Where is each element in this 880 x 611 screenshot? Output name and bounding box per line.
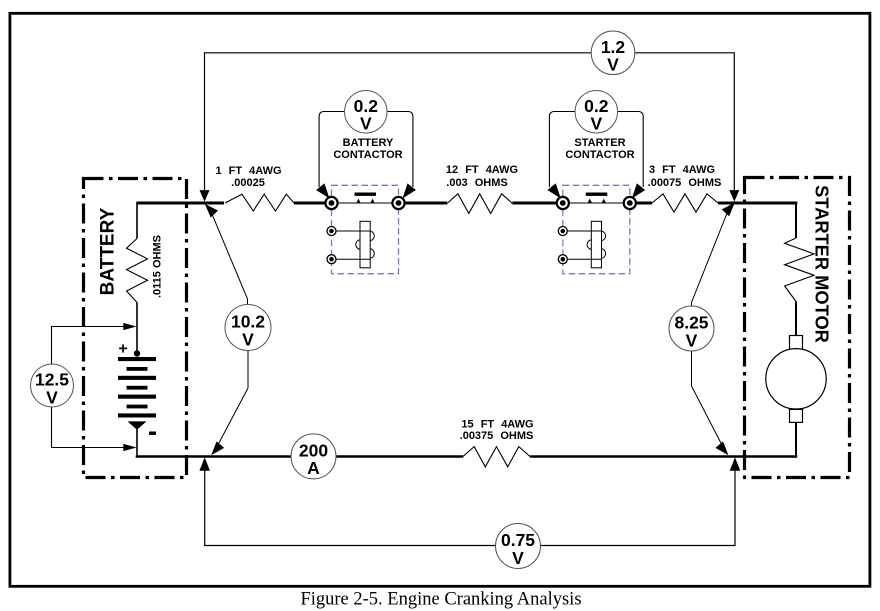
svg-text:Figure 2-5. Engine Cranking An: Figure 2-5. Engine Cranking Analysis [300,590,581,610]
label R1 [215,165,281,189]
K2 main terminal left [557,197,569,209]
K2 coil winding [587,221,606,267]
K1 movable contact bar [355,193,377,196]
arrow 10.2V top [201,200,218,217]
svg-text:STARTER: STARTER [574,137,625,149]
svg-text:12 FT 4AWG: 12 FT 4AWG [446,164,518,176]
label R4 [460,419,534,443]
K1 main terminal right [392,197,404,209]
resistor R5 battery internal (vertical zigzag) [127,239,148,303]
svg-text:V: V [46,387,58,407]
K2 fixed contacts [588,199,606,203]
arrow 10.2V bottom [207,441,224,458]
svg-text:.00075 OHMS: .00075 OHMS [648,177,722,189]
label R2 [446,164,518,189]
battery label [98,207,119,295]
svg-text:BATTERY: BATTERY [98,207,119,295]
K1 fixed contacts [356,199,374,203]
resistor R2: 12 FT 4AWG .003 OHMS (zigzag) [447,194,513,214]
voltmeter V3 0.2V (starter contactor) [575,91,618,134]
svg-text:V: V [590,114,602,134]
battery minus sign [149,432,156,435]
battery plus sign [118,341,127,358]
K2 coil terminals [558,227,567,264]
svg-text:.003 OHMS: .003 OHMS [446,177,507,189]
svg-text:V: V [242,329,254,349]
arrow 12.5V top [123,323,136,330]
svg-text:15 FT 4AWG: 15 FT 4AWG [461,419,533,431]
caption [300,590,581,610]
arrow 0.2V battery left [316,183,334,201]
svg-text:.00025: .00025 [231,177,265,189]
voltmeter V1 1.2V [591,31,635,75]
svg-text:STARTER MOTOR: STARTER MOTOR [812,185,833,343]
arrow at left end of 0.75V loop [199,457,210,470]
voltmeter V6 8.25V [669,306,714,351]
arrow at right end of 1.2V loop [729,190,739,202]
resistor R3: 3 FT 4AWG .00075 OHMS (zigzag) [652,194,718,212]
K2 main terminal right [624,197,636,209]
svg-text:BATTERY: BATTERY [343,137,394,149]
wire: bottom measurement loop for voltmeter 0.75V [205,464,735,546]
starter motor label [812,185,833,343]
battery BT1 cell plates [118,357,156,418]
svg-text:+: + [118,341,127,358]
wire: top main cable (thick) [137,202,797,205]
arrow at right end of 0.75V loop [730,457,741,470]
ammeter A1 200A [291,434,336,479]
starter contactor K2 enclosure (dashed box) [563,185,630,273]
wire: starter motor branch vertical [795,202,797,458]
resistor R6 starter motor internal (vertical zigzag) [785,238,814,302]
battery negative lead arrow [128,421,147,429]
svg-text:3 FT 4AWG: 3 FT 4AWG [649,164,715,176]
battery box (dash-dot) [84,179,187,478]
arrow at left end of 1.2V loop [200,190,210,202]
K2 coil lead wires [568,231,602,259]
svg-text:A: A [307,458,320,478]
battery BT1 positive terminal junction dot [134,350,140,356]
K1 coil winding [356,221,375,267]
voltmeter 12.5V bracket wires [52,327,131,448]
svg-text:V: V [360,114,372,134]
voltmeter V4 12.5V [31,364,74,407]
starter motor box (dash-dot) [745,178,850,478]
arrow 8.25V top [722,199,739,216]
voltmeter 0.2V battery contactor bracket [319,112,413,188]
battery contactor label [333,137,402,161]
arrow 0.2V starter right [628,183,646,201]
voltmeter 0.2V starter contactor bracket [549,112,643,188]
label R3 [648,164,722,189]
arrow 0.2V starter left [547,183,565,201]
svg-text:.00375 OHMS: .00375 OHMS [460,430,534,442]
svg-text:1 FT 4AWG: 1 FT 4AWG [215,165,281,177]
arrow 8.25V bottom [715,441,732,458]
svg-text:CONTACTOR: CONTACTOR [333,149,402,161]
K2 movable contact bar [586,193,608,196]
wire between K1 main terminals [332,202,399,204]
voltmeter 8.25V leads [692,210,729,449]
wire: bottom main cable (thick) [136,455,798,457]
starter contactor label [565,137,634,161]
battery contactor K1 enclosure (dashed box) [332,185,399,273]
svg-text:V: V [607,55,619,75]
K1 coil lead wires [337,231,371,259]
voltmeter V2 0.2V (battery contactor) [345,91,388,134]
K1 main terminal left [325,197,337,209]
wire between K2 main terminals [563,202,630,204]
K1 coil terminals [327,227,336,264]
svg-text:.0115 OHMS: .0115 OHMS [152,235,164,298]
arrow 12.5V bottom [123,444,136,451]
voltmeter V7 0.75V [496,524,541,569]
voltmeter V5 10.2V [225,305,271,351]
svg-text:CONTACTOR: CONTACTOR [565,149,634,161]
resistor R1: 1 FT 4AWG .00025 (zigzag) [225,194,294,211]
svg-text:V: V [512,548,524,568]
voltmeter 10.2V leads [211,211,249,449]
battery internal resistance value label .0115 OHMS [152,235,164,298]
svg-text:V: V [686,330,698,350]
starter motor M1 symbol [766,336,826,423]
resistor R4: 15 FT 4AWG .00375 OHMS (zigzag) [463,447,530,467]
arrow 0.2V battery right [398,183,416,201]
wire: top measurement loop for voltmeter 1.2V [205,53,735,192]
wire: battery branch vertical [136,202,138,458]
